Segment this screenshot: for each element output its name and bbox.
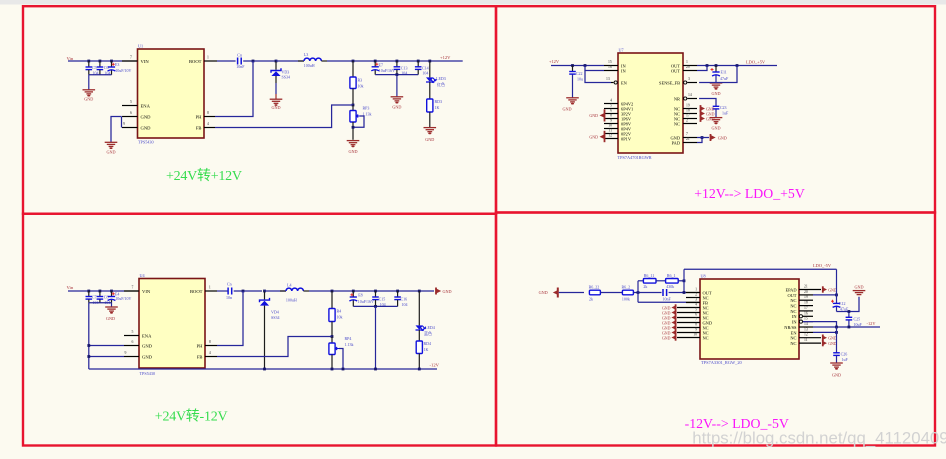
svg-text:1: 1 [686,60,688,64]
pin 5 NC (U8) [677,308,709,316]
svg-text:GND: GND [854,284,863,289]
svg-text:20: 20 [686,65,690,69]
capacitor E11 47uF (polarized) [711,64,730,82]
svg-text:BOOT: BOOT [189,59,202,64]
svg-text:20: 20 [804,290,808,294]
svg-text:11: 11 [804,338,808,342]
svg-text:PH: PH [197,343,204,348]
pin 8 1P6V [604,113,632,121]
capacitor C25 10uF [846,310,863,327]
svg-text:蓝色: 蓝色 [424,330,432,336]
svg-text:7: 7 [695,318,697,322]
op-amp U1 TPS5430 body [138,49,205,138]
pin 2 NC (U8) [686,293,709,301]
ground port GND pin 11 (U8) [823,340,837,346]
svg-text:10nF: 10nF [663,296,672,301]
capacitor C22 10u [569,66,583,98]
wire OUT pin lead [686,292,700,294]
schematic frame top-right quadrant [496,6,935,212]
svg-text:GND: GND [539,290,548,295]
svg-text:GND: GND [443,289,452,294]
svg-text:13: 13 [606,77,610,81]
ground port GND pin 5 (U8) [662,309,676,315]
wire GND port to R6_22 [559,292,584,294]
svg-text:TPS5430: TPS5430 [140,371,156,376]
node -12V junction dots [263,368,421,371]
svg-text:10u: 10u [577,77,583,82]
wire switch node to L3 [276,60,304,62]
wire joining input cap bottoms [89,302,112,304]
wire EN to rail and C26 [813,327,838,353]
svg-text:1.13k: 1.13k [363,112,372,117]
resistor R3 10k [350,60,364,105]
svg-text:SENSE_FB: SENSE_FB [659,80,680,85]
resistor R4 10k [329,290,343,337]
pin 4 NC (U8) [677,303,709,311]
svg-text:10: 10 [693,333,697,337]
svg-text:GND: GND [711,91,720,96]
pin 17 NC [674,113,697,121]
svg-text:GND: GND [141,114,152,119]
pin 6 NC (U8) [677,313,709,321]
ground port GND pin 21 (U8) [823,286,837,292]
svg-text:1K: 1K [435,105,440,110]
svg-text:GND: GND [662,311,671,315]
ground port GND pin 6 (U8) [662,314,676,320]
svg-text:GND: GND [662,326,671,330]
svg-text:TPS5430: TPS5430 [138,140,154,145]
svg-text:1: 1 [207,56,209,60]
wire R6_11 to R6_1 [656,280,666,282]
svg-text:GND: GND [271,105,280,110]
svg-text:OUT: OUT [671,68,680,73]
pin 15 IN [604,60,626,68]
svg-text:14: 14 [804,322,808,326]
resistor RD4 1K [416,330,431,369]
ground GND chip U1 [105,142,118,154]
svg-text:GND: GND [832,373,841,378]
wire to EN pin 13 [585,71,611,83]
ground port GND pin 4 (U8) [662,304,676,310]
ground GND C26 [830,363,843,378]
pin 14 NR [674,93,697,101]
inductor L3 100uH [298,52,327,68]
ground port GND NC pin at y108.5 [701,105,715,112]
svg-text:NC: NC [674,121,680,126]
wire R6_2 to FB node [633,292,661,294]
svg-text:7: 7 [130,56,132,60]
wire cap bottoms to ground [88,75,90,90]
pin 3 FB (U8) [686,298,708,306]
svg-text:8: 8 [207,111,209,115]
svg-text:1uF: 1uF [842,357,849,362]
diode VD3 SS34 [271,60,290,99]
svg-text:ENA: ENA [141,103,151,108]
pin 13 EN [606,77,628,85]
svg-text:R3: R3 [358,78,363,83]
resistor RD3 1K [427,82,442,127]
svg-text:C16: C16 [401,296,408,301]
svg-text:C26: C26 [841,351,848,356]
wire +12V output rail [327,60,463,62]
svg-text:100k: 100k [622,296,630,301]
svg-text:E7: E7 [379,62,383,67]
svg-text:10nF: 10nF [236,64,245,69]
ground GND C23 [710,118,723,131]
svg-text:LDO_-5V: LDO_-5V [813,263,832,268]
svg-text:47uF: 47uF [720,76,729,81]
wire upper divider branch [638,280,643,282]
capacitor C14 104 [415,60,429,76]
svg-text:R6_22: R6_22 [589,284,600,289]
svg-text:VIN: VIN [141,59,150,64]
svg-text:L3: L3 [304,52,308,57]
wire IN15 to rail [803,322,838,329]
svg-text:13: 13 [804,327,808,331]
svg-text:17: 17 [804,306,808,310]
svg-text:R6_1: R6_1 [667,273,676,278]
ground GND input caps (inverting) [105,307,118,321]
svg-text:+12V--> LDO_+5V: +12V--> LDO_+5V [694,186,805,201]
inductor L4 100uH [280,283,309,303]
pin 8 PH [196,111,215,119]
svg-text:17: 17 [686,113,690,117]
ground GND E11 [710,83,723,96]
svg-text:BOOT: BOOT [190,289,203,294]
capacitor C8 [97,290,111,305]
svg-text:11: 11 [608,128,612,132]
wire cap to OUT pin [669,292,686,294]
pin 9 0P8V [604,118,632,126]
resistor R6_2 100k [622,284,634,301]
ground port GND NC pin at y118.5 [701,115,715,122]
wire E12 bottom to ground [837,297,860,312]
pin 19 NC (U8) [790,295,813,303]
top gray strip [0,0,946,5]
svg-text:7: 7 [686,132,688,136]
wire C15 junction to -12V rail [375,306,377,369]
wire Cn to switch node [243,60,276,62]
node caps bottom junction [396,73,399,76]
pin 7 GND [670,132,697,140]
svg-text:RP3: RP3 [363,106,370,111]
svg-text:10k: 10k [337,315,343,320]
svg-text:R6_11: R6_11 [644,273,655,278]
pin 15 IN (U8) [792,317,813,325]
pin 1 OUT (U8) [686,288,712,296]
svg-text:GND: GND [706,112,715,116]
wire FB to divider [215,105,353,128]
svg-text:RD3: RD3 [435,99,443,104]
svg-text:C25: C25 [854,316,861,321]
node R4/RP4 junction [331,335,334,338]
wire BOOT to Cn [217,60,236,62]
diode VD4 SS34 [260,290,280,369]
capacitor C16 104 [394,290,407,308]
wire Cn to switch node (U4) [234,290,262,292]
svg-text:16: 16 [608,65,612,69]
svg-text:RP4: RP4 [345,336,352,341]
svg-text:C15: C15 [379,296,386,301]
svg-text:3: 3 [695,298,697,302]
svg-text:12: 12 [804,333,808,337]
ground port GND set pins upper [589,109,604,121]
resistor R6_1 430k [666,273,679,289]
svg-text:GND: GND [662,306,671,310]
wire GND pins 6-9 tie [121,117,123,128]
wire PH to switch node [215,61,253,117]
pin 9 NC (U8) [677,328,709,336]
pin 10 NC (U8) [677,333,709,341]
svg-text:NC: NC [790,309,796,314]
svg-text:NC: NC [790,336,796,341]
LED LED3 red [426,60,446,88]
svg-text:6: 6 [130,111,132,115]
svg-text:10n: 10n [226,295,232,300]
svg-text:RD4: RD4 [424,341,432,346]
capacitor C13 104 [394,60,408,76]
svg-text:L4: L4 [287,283,291,288]
svg-text:4: 4 [610,98,612,102]
ground port GND NC pin at y113.5 [701,110,715,117]
svg-text:GND: GND [706,107,715,111]
svg-text:GND: GND [706,117,715,121]
svg-text:GND: GND [392,105,401,110]
pin 10 0P4V [604,123,632,131]
svg-text:100uH: 100uH [286,297,297,302]
ground GND LED3 [424,128,437,142]
svg-text:21: 21 [804,285,808,289]
svg-text:1.13k: 1.13k [345,342,354,347]
svg-text:10: 10 [608,123,612,127]
svg-text:16: 16 [804,311,808,315]
node C15 bottom junction [374,305,377,308]
pin 20 OUT (U8) [787,290,813,298]
svg-text:TPS7A4701RGWR: TPS7A4701RGWR [618,155,652,160]
ground GND RP3 [347,141,360,154]
svg-text:8: 8 [209,340,211,344]
pin 6 3P2V [604,108,632,116]
svg-text:7: 7 [132,286,134,290]
wire GND7-PAD21 tie [697,136,709,142]
wire VIN pin lead [122,60,138,62]
wire E4 to ground [111,303,113,307]
svg-text:2: 2 [695,293,697,297]
svg-text:18: 18 [686,108,690,112]
svg-text:EPAD: EPAD [785,287,796,292]
potentiometer RP3 1.13k [350,105,372,140]
svg-text:1: 1 [209,286,211,290]
svg-text:LDO_+5V: LDO_+5V [746,60,766,65]
op-amp U4 TPS5430 body [139,279,205,369]
node input cap junction [571,64,574,67]
wire VIN pin lead [124,290,139,292]
svg-text:E12: E12 [839,301,845,306]
svg-text:104: 104 [422,71,428,76]
svg-text:10uF/16V: 10uF/16V [358,299,374,304]
svg-text:12: 12 [608,133,612,137]
node IN branch junction [584,64,587,67]
pin 12 NC (U8) [790,333,821,341]
svg-text:5: 5 [695,308,697,312]
pin 7 VIN [122,56,149,64]
svg-text:PAD: PAD [672,140,680,145]
svg-text:U4: U4 [140,273,146,278]
pin 4 6P4V2 [604,98,633,106]
ground port GND output rail [436,288,452,295]
svg-text:SS34: SS34 [271,315,279,320]
capacitor E3 (polarized 10uF/10V) [108,60,132,75]
svg-text:0P1V: 0P1V [621,136,632,141]
wire output rail to GND port [309,290,434,292]
capacitor E8 (polarized 10uF/16V) [349,290,374,307]
wire LDO_+5V output rail [697,65,777,67]
wire to IN pin 16 [585,66,604,71]
svg-text:4: 4 [695,303,697,307]
wire output caps bottoms [375,74,418,76]
svg-text:1K: 1K [424,347,429,352]
ground GND input caps [83,90,96,102]
potentiometer RP4 1.13k [329,336,354,369]
wire output node vertical [683,269,685,292]
svg-text:U7: U7 [619,48,624,53]
wire PH to switch node (U4) [217,291,243,346]
svg-text:LED4: LED4 [425,325,435,330]
wire GND6 to left rail [87,344,124,347]
pin 20 OUT [671,65,697,73]
ground port GND pin 7 (U8) [662,319,676,325]
pin 18 NC (U8) [790,301,813,309]
wire OUT20 tie [697,64,708,70]
svg-text:3: 3 [688,77,690,81]
svg-text:+24V转+12V: +24V转+12V [166,168,242,184]
pin 18 NC [674,108,697,116]
pin 13 EN (U8) [791,327,813,335]
pin 4 FB (U4) [197,351,217,359]
svg-text:Cn: Cn [237,52,242,57]
svg-text:NR: NR [674,96,680,101]
pin 8 NC (U8) [677,323,709,331]
pin 9 GND (U4) [124,351,153,359]
pin 7 GND (U8) [677,318,712,326]
wire GND pins to ground [111,117,122,143]
svg-text:GND: GND [141,125,152,130]
node switch junction (U4) [242,290,245,293]
pin 5 ENA [122,100,151,108]
svg-text:+12V: +12V [549,59,560,64]
pin 16 IN (U8) [792,311,813,319]
pin 1 BOOT (U4) [190,286,217,294]
svg-text:2: 2 [686,118,688,122]
svg-text:C23: C23 [720,105,727,110]
svg-text:U1: U1 [138,44,143,49]
svg-text:https://blog.csdn.net/qq_41120: https://blog.csdn.net/qq_41120409 [692,428,946,447]
pin 21 PAD [672,137,697,145]
ground GND E12 (flag up) [853,284,866,294]
svg-text:GND: GND [106,316,115,321]
wire Vin rail [68,290,124,292]
pin 17 NC (U8) [790,306,813,314]
ground port GND pin 10 (U8) [662,334,676,340]
pin 16 IN [604,65,626,73]
svg-text:10uF/10V: 10uF/10V [115,296,131,301]
svg-text:5: 5 [132,330,134,334]
pin 6 GND [122,111,151,119]
wire Vin rail to input caps [68,60,122,62]
schematic frame bottom-left quadrant [23,214,496,446]
capacitor C23 1uF [713,105,729,118]
svg-text:Vin: Vin [67,56,74,61]
ground GND diode VD3 [270,99,283,110]
pin 12 0P1V [604,133,632,141]
svg-text:-12V: -12V [430,363,440,368]
svg-text:15: 15 [608,60,612,64]
svg-text:8: 8 [610,113,612,117]
svg-text:ENA: ENA [142,333,152,338]
wire joining cap bottoms [89,74,112,76]
svg-text:GND: GND [562,107,571,112]
pin 21 EPAD (U8) [785,285,821,293]
pin 19 NC [674,103,697,111]
ground GND output caps [391,97,404,110]
ground port GND pad [711,134,727,141]
ground GND C22 [562,98,578,112]
resistor R6_22 2k [589,284,601,301]
svg-text:R6_2: R6_2 [622,284,631,289]
svg-text:GND: GND [142,354,153,359]
svg-text:1uF: 1uF [722,111,729,116]
svg-text:10uF/16V: 10uF/16V [379,68,395,73]
svg-text:10k: 10k [358,84,364,89]
svg-text:TPS7A3301_RGW_20: TPS7A3301_RGW_20 [701,360,743,365]
svg-text:GND: GND [828,337,837,341]
node FB divider junction [637,291,640,294]
capacitor E4 (polarized 10uF/10V) [108,290,132,303]
svg-text:NR/SS: NR/SS [784,325,797,330]
svg-text:2k: 2k [643,284,647,289]
svg-text:15: 15 [804,317,808,321]
svg-text:E11: E11 [721,70,727,75]
wire SENSE_FB tie [699,64,738,82]
pin 5 6P4V1 [604,103,633,111]
wire caps bottom to ground [396,75,398,97]
svg-text:FB: FB [196,125,202,130]
wire output cap bottoms (U4) [353,305,397,307]
capacitor E12 47uF (polarized) [831,295,849,312]
pin 9 GND [122,122,151,130]
wire GND9 to left rail [87,355,124,358]
LED LED4 blue [416,290,435,337]
node OUT junction [683,291,686,294]
capacitor C15 104 [372,290,385,308]
wire FB node vertical [637,281,639,303]
wire NR to C23 [699,99,716,107]
node switch junction [252,60,255,63]
pin 4 FB [196,122,215,130]
svg-text:GND: GND [84,97,93,102]
ground port GND pin 12 (U8) [823,335,837,341]
svg-text:GND: GND [589,135,598,140]
svg-text:6: 6 [695,313,697,317]
wire FB to divider (U4) [217,337,332,357]
svg-text:+12V: +12V [440,55,451,60]
svg-text:EN: EN [621,80,628,85]
node branch junction upper [683,279,686,282]
capacitor E7 (polarized 10uF/16V) [371,60,395,75]
wire +12V input rail [551,65,604,67]
svg-text:GND: GND [662,316,671,320]
wire -12V input rail [813,326,880,328]
